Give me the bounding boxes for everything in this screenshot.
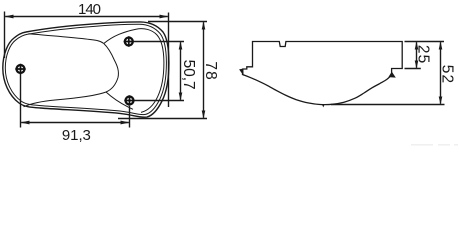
svg-text:25: 25 [415,45,432,63]
svg-text:140: 140 [78,1,101,18]
svg-text:50,7: 50,7 [180,60,197,90]
svg-text:78: 78 [202,61,219,79]
svg-text:91,3: 91,3 [62,127,91,144]
svg-text:52: 52 [439,65,456,83]
